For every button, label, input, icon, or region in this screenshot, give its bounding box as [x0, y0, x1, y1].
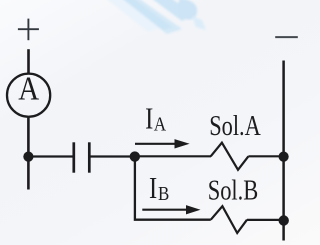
svg-text:Sol.A: Sol.A: [209, 110, 261, 142]
node 3 (junction dot, right upper): [279, 152, 289, 162]
wire: node 2 to solenoid Sol.A: [135, 155, 211, 157]
arrow I_A: [135, 139, 190, 148]
svg-text:I: I: [149, 171, 157, 205]
wire: Sol.A to node 3: [248, 155, 283, 157]
svg-text:Sol.B: Sol.B: [208, 175, 259, 207]
plus terminal (+): [18, 19, 39, 41]
wire: Sol.B to node 4: [247, 219, 284, 221]
wire: capacitor to node 2: [90, 155, 134, 157]
wire: ammeter to node 1: [27, 118, 30, 155]
node 1 (junction dot, left): [23, 152, 33, 162]
solenoid Sol.A (zigzag): [211, 143, 249, 170]
node 2 (junction dot, middle): [130, 151, 140, 161]
solenoid Sol.B (zigzag): [211, 206, 247, 233]
svg-text:A: A: [154, 114, 167, 136]
arrow I_B: [142, 205, 200, 214]
label I_A: [145, 102, 167, 136]
wire: node 1 to capacitor: [29, 155, 73, 157]
wire: node 2 down and right to Sol.B branch: [135, 158, 211, 220]
svg-text:A: A: [18, 71, 39, 108]
wire: right vertical bus: [282, 61, 285, 241]
minus terminal (-): [275, 36, 298, 38]
wire: stub below node 1: [27, 158, 30, 190]
label I_B: [149, 171, 169, 205]
svg-text:I: I: [145, 102, 153, 136]
node 4 (junction dot, right lower): [279, 215, 289, 225]
capacitor C (plates): [74, 142, 90, 172]
wire: plus to ammeter: [27, 49, 30, 73]
ammeter A: [7, 74, 50, 117]
svg-text:B: B: [158, 183, 169, 205]
